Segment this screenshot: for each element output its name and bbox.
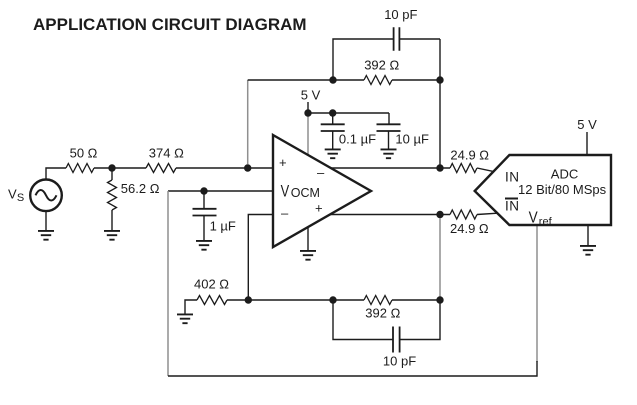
ground 56.2 (104, 231, 120, 240)
wire -output to 24.9 (331, 167, 451, 169)
wire 10pF loop right (439, 39, 441, 168)
resistor 392 ohm bottom (333, 296, 440, 321)
ground 402 (177, 314, 193, 323)
node 1uF (200, 187, 207, 194)
node junction 50/56.2/374 (108, 164, 115, 171)
svg-text:5 V: 5 V (577, 117, 597, 132)
supply 5V ADC (577, 117, 597, 155)
svg-text:12 Bit/80 MSps: 12 Bit/80 MSps (518, 182, 607, 197)
wire Vref drop (gray) (536, 226, 538, 362)
wire 5V to opamp (gray) (307, 113, 309, 156)
resistor 24.9 ohm top (450, 148, 494, 173)
ground 10uF (381, 149, 397, 158)
svg-text:OCM: OCM (291, 186, 320, 200)
ADC ground wire (587, 225, 589, 246)
svg-text:ADC: ADC (551, 166, 578, 181)
svg-text:1 µF: 1 µF (210, 219, 236, 234)
svg-text:APPLICATION CIRCUIT DIAGRAM: APPLICATION CIRCUIT DIAGRAM (33, 15, 307, 34)
source VS (8, 168, 66, 240)
svg-text:374 Ω: 374 Ω (149, 145, 184, 160)
svg-text:V: V (529, 210, 538, 227)
label INbar (505, 198, 518, 200)
svg-text:–: – (281, 206, 289, 221)
wire 5V ADC (586, 132, 588, 155)
svg-text:50 Ω: 50 Ω (70, 145, 98, 160)
svg-text:10 pF: 10 pF (383, 354, 416, 369)
node bypass 0.1uF (329, 109, 336, 116)
resistor 402 ohm (177, 277, 333, 323)
resistor 56.2 ohm (vertical) (104, 172, 160, 240)
ground op-amp (300, 251, 316, 260)
svg-text:S: S (17, 192, 24, 204)
svg-text:402 Ω: 402 Ω (194, 277, 229, 292)
svg-text:56.2 Ω: 56.2 Ω (121, 181, 160, 196)
node -input bottom (245, 296, 252, 303)
svg-text:+: + (315, 201, 323, 216)
wire 374 to +input (176, 167, 273, 169)
capacitor 10 pF bottom loop (333, 300, 440, 369)
ADC input wires already drawn; ADC block (475, 155, 611, 225)
source circle VS (30, 180, 62, 212)
wire VOCM (168, 190, 273, 192)
sine wave (36, 190, 57, 201)
node 392 bottom left (329, 296, 336, 303)
node -output feedback (436, 164, 443, 171)
wire source top (46, 168, 66, 180)
resistor 374 ohm (146, 145, 273, 172)
wire feedback top-left vertical (gray) (247, 80, 249, 165)
ground 1uF (196, 241, 212, 250)
op-amp U1 (273, 135, 371, 247)
node +input (244, 164, 251, 171)
svg-text:24.9 Ω: 24.9 Ω (450, 148, 489, 163)
svg-text:ref: ref (539, 216, 553, 228)
capacitor 0.1 uF (332, 113, 334, 124)
wire +output down (gray) (439, 218, 441, 300)
wire to ADC INbar (477, 213, 498, 214)
node feedback left (329, 76, 336, 83)
svg-text:IN: IN (505, 199, 520, 214)
svg-text:5 V: 5 V (301, 87, 321, 102)
wire bypass rail (308, 113, 389, 124)
resistor 50 ohm (66, 145, 146, 172)
svg-text:V: V (281, 183, 290, 201)
wire to ADC IN (477, 168, 494, 172)
supply 5V opamp (301, 87, 429, 158)
svg-text:392 Ω: 392 Ω (365, 306, 400, 321)
svg-text:24.9 Ω: 24.9 Ω (450, 221, 489, 236)
wire 10pF loop left (333, 39, 394, 80)
svg-text:392 Ω: 392 Ω (364, 58, 399, 73)
ground ADC (580, 246, 596, 255)
node 392 bottom right (436, 296, 443, 303)
wire feedback top horizontal (248, 79, 333, 81)
capacitor 10 pF top (384, 7, 440, 51)
ground 0.1uF (325, 149, 341, 158)
wire +output to 24.9 (331, 214, 451, 216)
svg-text:0.1 µF: 0.1 µF (339, 132, 376, 147)
svg-text:V: V (8, 186, 17, 201)
wire 50 ohm to node (94, 167, 146, 169)
ground source (38, 231, 54, 240)
wire 5V stub (307, 102, 309, 113)
wire -input (248, 215, 273, 297)
resistor 392 ohm top (333, 58, 440, 85)
svg-text:+: + (279, 155, 287, 170)
wire source bottom (45, 211, 47, 231)
svg-text:–: – (317, 165, 325, 180)
svg-text:10 pF: 10 pF (384, 7, 417, 22)
node feedback right top (436, 76, 443, 83)
resistor 24.9 ohm bottom (450, 210, 498, 236)
capacitor 10 uF (377, 124, 401, 131)
node 5V (304, 109, 311, 116)
svg-text:10 µF: 10 µF (395, 132, 429, 147)
capacitor 1 uF (193, 191, 236, 250)
op-amp ground wire (307, 227, 309, 251)
wire bottom return (168, 361, 537, 376)
node +output feedback (436, 211, 443, 218)
wire left loop (gray) (167, 191, 169, 376)
